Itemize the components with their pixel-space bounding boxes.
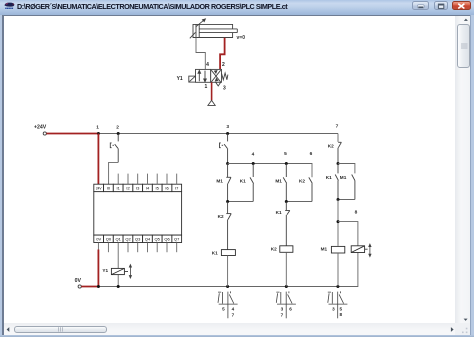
node 3 (226, 124, 229, 135)
node 2 (116, 124, 119, 135)
cylinder adjust arrow (196, 19, 206, 27)
solenoid valve link indicator (365, 244, 371, 256)
valve right box crossed arrows (211, 70, 220, 82)
wire bottom rail (98, 253, 358, 287)
contact K1 make (rung 5 lower) (276, 202, 290, 246)
relay coil K2 (271, 246, 293, 287)
PLC output terminal row (94, 235, 182, 242)
exhaust port 3 (216, 82, 221, 86)
valve return spring (222, 73, 228, 80)
contact M1 make (rung 3) (216, 164, 231, 202)
pushbutton E (rung 2) (110, 134, 118, 163)
node 6 label (310, 151, 313, 157)
contact table K2 (276, 291, 296, 318)
cylinder piston (196, 24, 199, 37)
node rung3 junction (226, 162, 229, 165)
wire merge rung3-4 (228, 201, 254, 203)
valve solenoid coil (rung 8) (351, 246, 364, 253)
wire to node 8 (337, 200, 339, 246)
label v=0 (237, 35, 246, 41)
valve port labels 4 2 1 3 (205, 62, 227, 91)
rail junction dots (97, 285, 340, 288)
tube cylinder left port to valve port 4 (196, 38, 205, 70)
PLC input stubs (118, 174, 177, 185)
caption button icons (410, 0, 474, 14)
wire 0V red segment (81, 286, 98, 288)
tube cylinder right port to valve port 2 (pressurized red) (220, 38, 225, 70)
PLC output stubs (98, 243, 176, 253)
Y1 valve link indicator (124, 265, 131, 278)
node 1 (96, 124, 100, 135)
contact M1 break (rung 5) (275, 164, 286, 202)
wire branch connector nodes 4 5 6 (228, 164, 312, 178)
contact M1 break (rung 8 branch) (340, 175, 355, 200)
compressed air source (208, 100, 215, 105)
wire rail corner rung 7 (337, 134, 339, 142)
wire merge rung7 (338, 199, 355, 201)
solenoid pilot Y1 on valve (177, 76, 196, 82)
wire merge rung5-6 (286, 201, 312, 203)
node 8 (337, 210, 358, 246)
wire +24V red segment (46, 133, 98, 135)
node 5 (284, 151, 288, 165)
cylinder piston rod (199, 29, 237, 33)
contact K2 break (rung 6) (299, 177, 312, 201)
contact K2 make (rung 7) (328, 142, 342, 163)
wire PLC 0V to rail (red) (97, 250, 99, 287)
terminal 0V (75, 278, 82, 288)
valve V1 body 4/2 (196, 69, 222, 82)
wire top rail (98, 133, 338, 135)
window icon (3, 1, 19, 15)
contact table K1 (218, 291, 238, 318)
terminal +24V (34, 124, 47, 135)
contact table M1 (328, 291, 348, 318)
solenoid coil Y1 (102, 268, 124, 275)
supply line port 1 (red) (211, 82, 213, 100)
cylinder A (double-acting, barrel) (193, 24, 233, 37)
wire switch to PLC I0 (109, 162, 119, 184)
node 4 (252, 152, 255, 166)
PLC input terminal row (94, 184, 182, 191)
contact K1 break (rung 7) (326, 164, 339, 200)
relay coil K1 (212, 250, 236, 287)
node 7 label (336, 123, 339, 129)
wire node1 to PLC 24V (red) (97, 134, 99, 185)
wire branch rung7 top (338, 164, 355, 174)
wire Q1 to 0V rail (117, 243, 119, 287)
contact K2 make (rung 3 lower) (218, 202, 232, 250)
PLC input labels (96, 185, 179, 190)
relay coil M1 (321, 246, 345, 286)
pushbutton E (rung 3) (220, 134, 228, 164)
cylinder cushion slash (190, 32, 196, 38)
PLC module body (94, 192, 182, 236)
PLC output labels (96, 236, 180, 241)
contact K1 break (rung 4) (240, 164, 254, 202)
valve left box flow arrows (198, 70, 206, 81)
